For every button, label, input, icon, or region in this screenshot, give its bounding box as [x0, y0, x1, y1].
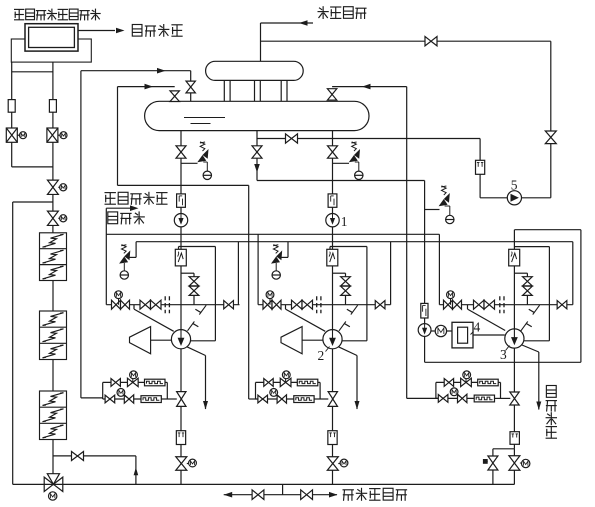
strainer (branch3): [509, 249, 520, 266]
wire: box1-box2: [52, 281, 54, 312]
sight glass B (branch1): [141, 396, 161, 403]
wire: economizer left drop: [11, 62, 13, 167]
strainer (branch2): [327, 249, 338, 266]
label: to reheater (去再热器): [546, 386, 557, 439]
flow indicator circle (branch2): [326, 214, 339, 227]
waterwall heating surface box 3: [40, 391, 67, 440]
warm-up diagonal with breaks (branch1): [188, 305, 207, 331]
wire: feed line 2: [118, 86, 175, 88]
wire: discharge drop (branch1): [205, 356, 207, 410]
wire: split top (branch3): [493, 444, 515, 449]
svg-text:2: 2: [318, 348, 325, 363]
relief assembly R3: [439, 186, 454, 224]
arrow on feed line 1: [157, 68, 166, 74]
wire: branch3 main: [513, 230, 515, 445]
wire: main to waterwall box1: [52, 226, 54, 233]
wire: gauge row A (branch1): [103, 381, 146, 383]
sight glass B (branch3): [474, 395, 494, 402]
wire: condensate drop to header: [260, 23, 262, 61]
wire: gauge row A (branch2): [256, 381, 299, 383]
orifice on left drop: [8, 100, 15, 113]
valve A1 (branch1): [111, 379, 120, 387]
pump circle (branch2): [323, 330, 342, 349]
motor horn (branch1): [130, 327, 151, 354]
wire: HP bypass line: [224, 494, 337, 496]
wire: row B to main (branch2): [314, 398, 328, 400]
wire: economizer main drop: [52, 62, 54, 180]
wire: recirc riser (branch2): [366, 247, 368, 341]
motor valve A2 (branch3): [461, 371, 472, 387]
valve below drum (branch1): [176, 146, 186, 158]
arrow on feed line 3: [362, 84, 371, 90]
wire: gauge row A (branch3): [436, 381, 479, 383]
label: 4 with leader: [471, 320, 481, 335]
wire: gauge row B (branch1): [103, 398, 141, 400]
arrow: discharge down (branch1): [203, 401, 208, 410]
wire: horn to pump (branch1): [151, 339, 172, 341]
wire: drum blowoff line: [257, 138, 480, 140]
pump 5: [507, 191, 521, 205]
label: 5: [511, 178, 518, 193]
wire: water column 2 drop: [248, 185, 250, 399]
wire: pump5 suction riser: [479, 139, 481, 198]
removable spool marks (branch2): [317, 296, 321, 313]
label: to condensate (至凝结水): [105, 192, 168, 205]
arrow: to condensate tank: [130, 205, 139, 211]
sight glass B (branch2): [294, 396, 314, 403]
wire: water column 2 cross: [118, 184, 249, 186]
orifice on main drop: [49, 100, 56, 113]
arrow: to HP bypass: [329, 492, 338, 498]
wire: HP bypass stub: [282, 484, 284, 494]
valve B1 (branch2): [258, 395, 268, 403]
wire: suction diagonal (branch3): [468, 305, 506, 331]
wire: recirc riser (branch3): [548, 247, 550, 341]
wire: condensate inlet line: [261, 22, 314, 24]
arrow up on recirc drop: [134, 467, 139, 475]
valve on condensate cross line: [425, 37, 437, 46]
waterwall heating surface box 2: [40, 311, 67, 360]
removable spool marks (branch1): [165, 296, 169, 313]
wire: suction2 right-end riser: [390, 242, 392, 305]
wire: main between valves: [52, 195, 54, 212]
wire: drain drop (branch2): [345, 273, 347, 305]
wire: discharge diagonal down (branch2): [338, 347, 357, 356]
svg-text:4: 4: [474, 320, 481, 335]
wire: drain bus C: [136, 241, 573, 243]
wire: main pump to bottom (branch2): [332, 349, 334, 485]
label: 2 with leader: [318, 347, 330, 364]
svg-text:5: 5: [511, 178, 518, 193]
motor valve B2 (branch2): [270, 389, 287, 404]
valve below drum (branch2): [328, 146, 338, 158]
wire: condensate cross line: [261, 40, 551, 42]
steam header (capsule): [206, 61, 304, 80]
wire: recirc branch: [53, 455, 136, 457]
motor horn (branch2): [281, 327, 302, 354]
wire: main pump to bottom (branch1): [180, 349, 182, 485]
arrow left on HP bypass line: [224, 492, 233, 498]
hydraulic coupling box 4: [447, 322, 505, 348]
restrictor box (branch3): [510, 432, 519, 445]
wire: pump suction header (branch3): [439, 304, 572, 306]
wire: recirc top (branch3): [514, 246, 549, 248]
wire: water column 1 foot: [81, 397, 103, 399]
wire: bottom blowdown header: [13, 483, 515, 485]
valve on drop (branch3): [510, 392, 519, 405]
motor valve A2 (branch2): [280, 371, 291, 387]
flow orifice (branch3): [421, 303, 428, 318]
label: economizer ring header (省煤器环形联箱): [14, 9, 101, 21]
wire: discharge diagonal (branch3): [522, 345, 539, 352]
label: 3 with leader: [500, 346, 510, 363]
double valve (branch3): [474, 300, 495, 309]
valve on drum blowoff line: [286, 134, 298, 143]
wire: pump suction header (branch2): [258, 304, 391, 306]
wire: right supply drop: [580, 230, 582, 363]
valve B1 (branch1): [105, 395, 115, 403]
wire: suction1 right-end riser: [237, 242, 239, 305]
label: 1: [341, 214, 348, 229]
drain valve lower (branch2): [341, 286, 351, 295]
wire: feed line 1: [81, 70, 191, 72]
pump circle (branch1): [171, 330, 190, 349]
wire: branch2 supply drop: [257, 234, 259, 304]
valve on center downcomer: [252, 146, 262, 158]
economizer outer box: [11, 39, 91, 62]
wire: left drop to main join: [12, 166, 53, 168]
control valve with motor (branch1): [112, 291, 130, 309]
wire: instrument drop: [424, 181, 426, 363]
wire: horn to pump (branch2): [302, 339, 323, 341]
restrictor box (branch1): [176, 431, 185, 445]
wire: right riser upper: [550, 41, 552, 198]
wire: branch main from drum (branch2): [332, 131, 334, 250]
flow element on pump5 riser: [476, 160, 485, 174]
valve with solenoid box (branch3): [483, 456, 498, 470]
wire: water column 3 foot: [407, 397, 439, 399]
pipe pair 1 header-drum: [224, 80, 230, 101]
motor valve B2 (branch1): [117, 389, 134, 404]
valve A1 (branch3): [444, 379, 453, 387]
valve near header end (branch2): [375, 301, 385, 309]
wire: gauge rows connector (branch3): [435, 382, 437, 398]
motor valve right (branch3): [509, 456, 530, 471]
wire: branch3 supply left drop: [438, 234, 440, 304]
wire: to-condensate-tank arrow line: [106, 207, 133, 209]
wire: reheater drop: [538, 352, 540, 410]
drain valve upper (branch3): [523, 277, 533, 286]
valve on recirc branch: [72, 452, 84, 461]
wire: instrument line: [257, 180, 425, 182]
wire: suction3 right-end riser: [572, 242, 574, 305]
wire: row A elbow (branch3): [498, 382, 500, 398]
warm-up diagonal with breaks (branch2): [339, 305, 358, 331]
wire: drain bus A: [106, 233, 439, 235]
double valve (branch2): [292, 300, 313, 309]
arrow: to reheater: [536, 402, 541, 411]
valve on right riser: [545, 131, 556, 144]
removable spool marks (branch3): [500, 296, 504, 313]
valve near header end (branch1): [224, 301, 234, 309]
flow orifice (branch2): [328, 194, 337, 207]
wire: main strainer to pump (branch1): [180, 266, 182, 330]
three-way valve with motor: [44, 474, 63, 500]
wire: water column 1 riser: [80, 71, 82, 398]
motor valve B2 (branch3): [450, 388, 467, 403]
wire: box3 down: [52, 440, 54, 478]
svg-text:1: 1: [341, 214, 348, 229]
motor valve V-b on main: [47, 211, 66, 225]
wire: drain tap (branch1): [181, 272, 194, 274]
motor valve on drop (branch1): [176, 457, 197, 471]
arrow down on center downcomer: [254, 164, 260, 173]
label: to superheater (去过热器): [132, 24, 182, 37]
valve A1 (branch2): [264, 379, 273, 387]
motor valve on drop (branch2): [327, 457, 348, 471]
wire: row A elbow (branch2): [318, 382, 320, 399]
wire: tap to left downcomer: [13, 201, 53, 203]
valve on HP bypass line right: [301, 490, 313, 500]
gate valve with motor, main drop: [47, 128, 67, 142]
wire: gauge row B (branch3): [436, 397, 474, 399]
relief assembly (branch1): [197, 142, 211, 180]
wire: branch main from drum (branch1): [180, 131, 182, 250]
wire: water column 2 foot: [249, 398, 257, 400]
wire: pump suction header (branch1): [106, 304, 239, 306]
valve on drop (branch1): [177, 392, 186, 407]
economizer ring header box (double rect): [25, 24, 78, 51]
wire: drain tap (branch3): [514, 272, 527, 274]
wire: split left drop (branch3): [492, 449, 494, 485]
wire: discharge diagonal down (branch1): [187, 347, 206, 356]
wire: drain tap (branch2): [333, 272, 346, 274]
wire: pump5 suction: [480, 197, 507, 199]
valve on drop (branch2): [328, 392, 337, 407]
relief assembly (branch2): [349, 142, 363, 180]
valve V2 on drum top: [170, 91, 179, 102]
wire: tap to relief (branch1): [181, 162, 198, 164]
wire: gauge row B (branch2): [256, 398, 294, 400]
wire: to superheater: [78, 30, 115, 32]
sight glass A (branch3): [478, 379, 499, 386]
wire: suction diagonal (branch1): [134, 305, 174, 332]
relief assembly R4: [119, 242, 136, 279]
label: condensate comes (凝结水来): [318, 6, 367, 19]
gate valve with motor, left drop: [6, 128, 26, 142]
warm-up diagonal with breaks (branch3): [521, 305, 540, 331]
wire: center downcomer: [256, 131, 258, 181]
pipe pair 2 header-drum: [255, 80, 261, 101]
restrictor box (branch2): [328, 431, 337, 445]
control valve with motor (branch3): [444, 291, 462, 309]
valve on HP bypass line left: [252, 490, 264, 500]
drain valve lower (branch1): [189, 286, 199, 295]
control valve with motor (branch2): [263, 291, 281, 309]
wire: feed line 3: [332, 86, 407, 88]
motor circle (branch3): [431, 325, 447, 336]
valve V3 on drum top right: [327, 89, 336, 100]
wire: discharge to recirc (branch2): [342, 340, 367, 342]
wire: gauge rows connector (branch1): [102, 382, 104, 399]
wire: V1 to drum: [190, 93, 192, 101]
wire: lower supply line: [425, 361, 581, 363]
wire: drain drop (branch1): [193, 273, 195, 305]
arrow: discharge down (branch2): [355, 401, 360, 410]
drum water level lines: [184, 118, 225, 124]
wire: feed 1 stem: [190, 71, 192, 81]
label: to HP bypass (去高压旁路): [343, 488, 408, 501]
wire: box2-box3: [52, 360, 54, 392]
wire: water column 3 riser: [406, 87, 408, 399]
arrow on feed line 2: [145, 84, 154, 90]
wire: main strainer to pump (branch2): [332, 266, 334, 330]
wire: recirc riser (branch1): [214, 247, 216, 341]
sight glass A (branch1): [145, 379, 166, 386]
pump circle P3: [505, 329, 524, 348]
wire: recirc drop: [135, 456, 137, 485]
wire: pump5 discharge: [521, 197, 550, 199]
arrow on condensate inlet: [299, 20, 308, 26]
boiler drum (capsule): [145, 101, 369, 130]
wire: tap to relief (branch2): [333, 162, 350, 164]
drain valve upper (branch1): [189, 277, 199, 286]
flow indicator circle (branch1): [174, 214, 187, 227]
wire: water column 2 riser: [117, 87, 119, 186]
wire: gauge rows connector (branch2): [255, 382, 257, 399]
flow orifice (branch1): [177, 194, 186, 207]
valve near header end (branch3): [557, 301, 567, 309]
wire: tap to relief R3: [425, 209, 440, 211]
label: return tank (回水箱): [108, 211, 145, 224]
arrow: to superheater: [116, 28, 125, 34]
wire: row B to main (branch1): [161, 398, 177, 400]
wire: branch3 top supply: [514, 229, 581, 231]
wire: suction diagonal (branch2): [286, 305, 326, 332]
motor valve A2 (branch1): [127, 371, 138, 387]
wire: discharge to recirc (branch1): [191, 340, 216, 342]
motor valve V-a on main: [47, 180, 66, 194]
valve V1 on drum top: [186, 81, 195, 93]
wire: recirc top (branch2): [330, 247, 367, 250]
drain valve lower (branch3): [523, 286, 533, 295]
pipe pair 3 header-drum: [281, 80, 287, 101]
wire: left downcomer: [12, 202, 14, 484]
wire: discharge to recirc (branch3): [524, 340, 549, 342]
wire: row A elbow (branch1): [165, 382, 167, 399]
waterwall heating surface box 1: [40, 233, 67, 281]
wire: recirc top (branch1): [179, 247, 216, 250]
wire: split right drop (branch3): [513, 449, 515, 485]
double valve (branch1): [140, 300, 161, 309]
wire: branch1 supply drop: [105, 208, 107, 305]
wire: jumper below box: [12, 71, 53, 73]
valve B1 (branch3): [438, 395, 448, 403]
wire: drain drop (branch3): [526, 273, 528, 305]
strainer (branch1): [175, 249, 186, 266]
wire: discharge drop (branch2): [356, 356, 358, 410]
relief assembly R5: [271, 242, 288, 279]
flow indicator circle (branch3): [418, 324, 431, 337]
drain valve upper (branch2): [341, 277, 351, 286]
sight glass A (branch2): [297, 379, 318, 386]
wire: row B to main (branch3): [495, 397, 511, 399]
